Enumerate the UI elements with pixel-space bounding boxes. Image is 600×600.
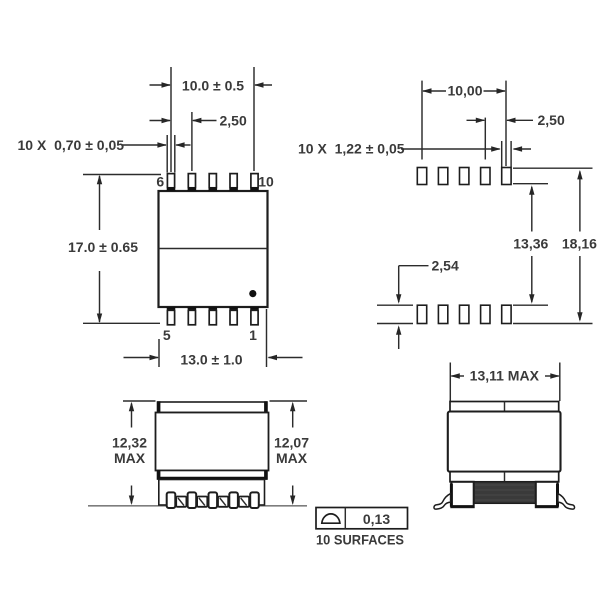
end view: left post thick edge	[451, 484, 474, 507]
dimension 10X 0,70 +/-0,05 right arrow	[175, 142, 190, 147]
land pad 2 (bottom row)	[481, 305, 490, 323]
svg-text:12,32: 12,32	[112, 435, 147, 451]
land pattern: extension line pad6 center	[421, 81, 423, 160]
svg-text:2,54: 2,54	[432, 257, 459, 273]
front-row lead 5 (front view)	[250, 492, 259, 508]
dimension label 17.0 +/-0.65	[68, 239, 138, 255]
extension line top pads upper edge	[513, 167, 593, 169]
svg-text:10,00: 10,00	[447, 83, 482, 99]
dimension 13.0 +/-1.0 left arrow	[124, 355, 160, 360]
svg-text:12,07: 12,07	[274, 435, 309, 451]
pin label 6	[156, 173, 164, 189]
land pad 5 (bottom row)	[417, 305, 426, 323]
extension line bottom pads lower edge (right)	[513, 323, 593, 325]
front view: top extension line right segment	[270, 400, 308, 402]
pin 9 lead (top row)	[229, 174, 238, 191]
dimension label 10 X 1,22 +/-0,05	[298, 141, 405, 157]
svg-text:0,13: 0,13	[363, 511, 390, 527]
land pad 9 (top row)	[481, 168, 490, 185]
dimension 2,50 pitch right arrow	[506, 118, 533, 123]
dimension label 18,16	[562, 235, 597, 251]
svg-text:MAX: MAX	[276, 450, 308, 466]
end view: top flange	[450, 402, 559, 412]
svg-text:2,50: 2,50	[538, 112, 565, 128]
front view: bobbin base	[159, 480, 265, 506]
top view: extension line pin10 center	[253, 67, 255, 171]
svg-text:10 SURFACES: 10 SURFACES	[316, 531, 404, 547]
dimension 10,00 right arrow	[484, 88, 507, 93]
end view: right bobbin post	[536, 482, 558, 507]
dimension 12,07 MAX down arrow	[290, 486, 295, 506]
dimension 2,50 pitch left arrow	[467, 118, 486, 123]
dimension 2,50 left arrow	[150, 118, 172, 123]
dimension label 2,50 (land pattern)	[538, 112, 565, 128]
dimension label 13,36	[513, 235, 548, 251]
dimension label 13,11 MAX	[470, 368, 540, 384]
top view: extension lines pin6 edges	[167, 135, 175, 173]
front view: top tape flange	[158, 401, 268, 413]
pin label 5	[163, 327, 171, 343]
svg-text:5: 5	[163, 327, 171, 343]
top view: extension line body top	[83, 174, 161, 176]
end view: left bobbin post	[451, 482, 473, 507]
svg-text:MAX: MAX	[114, 450, 146, 466]
front view: core body	[156, 413, 269, 471]
land pad 4 (bottom row)	[438, 305, 447, 323]
end view: right gull-wing lead	[558, 494, 575, 510]
back-row lead 7 (front view)	[176, 497, 186, 507]
pin label 10	[258, 173, 274, 189]
dimension 2,54 leader line	[399, 265, 429, 267]
dimension 18,16 upper arrow	[577, 170, 582, 232]
dimension 12,07 MAX up arrow	[290, 402, 295, 428]
svg-text:6: 6	[156, 173, 164, 189]
front-row lead 1 (front view)	[167, 492, 176, 508]
end view: right post thick edge	[536, 484, 558, 507]
dimension label 2,54	[432, 257, 459, 273]
end view: core body	[448, 412, 561, 472]
top view: extension line pin7 center	[191, 112, 193, 171]
dimension 12,32 MAX down arrow	[129, 486, 134, 506]
dimension 1,22 leader arrow	[401, 146, 501, 151]
pin label 1	[249, 327, 257, 343]
dimension 10.0 +/-0.5 left arrow	[150, 82, 172, 87]
dimension 13.0 +/-1.0 right arrow	[268, 355, 303, 360]
dimension 17.0 +/-0.65 upper arrow	[97, 175, 102, 230]
svg-text:2,50: 2,50	[220, 112, 247, 128]
seating plane line	[88, 505, 307, 507]
back-row lead 9 (front view)	[218, 497, 228, 507]
land pad 6 (top row)	[417, 168, 426, 185]
land pad 8 (top row)	[460, 168, 469, 185]
surface profile symbol	[322, 514, 340, 523]
dimension 13,11 MAX left arrow	[450, 373, 464, 378]
extension line top pads lower edge	[513, 183, 548, 185]
bottom width extension line left	[158, 339, 160, 367]
dimension 18,16 lower arrow	[577, 256, 582, 322]
svg-text:10 X 0,70 ± 0,05: 10 X 0,70 ± 0,05	[18, 137, 125, 153]
land pattern: extension line pad9 center	[484, 118, 486, 160]
dimension 1,22 right arrow	[513, 146, 531, 151]
dimension 10X 0,70 +/-0,05 leader arrow	[123, 142, 167, 147]
dimension 13,36 lower arrow	[529, 256, 534, 304]
pin 1 index dot	[249, 290, 256, 297]
dimension 13,11 MAX right arrow	[545, 373, 560, 378]
pin 10 lead (top row)	[250, 174, 259, 191]
svg-text:17.0 ± 0.65: 17.0 ± 0.65	[68, 239, 138, 255]
dimension label 2,50	[220, 112, 247, 128]
end view: extension line right	[559, 363, 561, 402]
pin 4 lead (bottom row)	[187, 307, 196, 325]
dimension 12,32 MAX up arrow	[129, 402, 134, 428]
land pattern: extension lines pad10 edges	[502, 141, 511, 167]
package body top view	[159, 191, 268, 307]
svg-text:10: 10	[258, 173, 274, 189]
front-row lead 2 (front view)	[188, 492, 197, 508]
dimension label 13.0 +/-1.0	[180, 351, 242, 367]
pin 2 lead (bottom row)	[229, 307, 238, 325]
dimension 17.0 +/-0.65 lower arrow	[97, 271, 102, 323]
svg-text:13.0 ± 1.0: 13.0 ± 1.0	[180, 351, 242, 367]
dimension label 10 X 0,70 +/-0,05	[18, 137, 125, 153]
front view: bottom flange	[157, 470, 267, 480]
dimension 2,54 down arrow	[396, 266, 401, 304]
dimension label 12,07 MAX	[274, 435, 309, 466]
dimension 13,36 upper arrow	[529, 185, 534, 231]
front-row lead 4 (front view)	[229, 492, 238, 508]
pin 6 lead (top row)	[166, 174, 175, 191]
svg-text:18,16: 18,16	[562, 235, 597, 251]
svg-text:1: 1	[249, 327, 257, 343]
back-row lead 10 (front view)	[239, 497, 249, 507]
dimension label 10,00	[447, 83, 482, 99]
pin 1 lead (bottom row)	[250, 307, 259, 325]
svg-text:10 X 1,22 ± 0,05: 10 X 1,22 ± 0,05	[298, 141, 405, 157]
svg-text:13,36: 13,36	[513, 235, 548, 251]
pin 8 lead (top row)	[208, 174, 217, 191]
top view: extension line body bottom	[83, 322, 160, 324]
land pad 3 (bottom row)	[460, 305, 469, 323]
front-row lead 3 (front view)	[209, 492, 218, 508]
end view: extension line left	[449, 363, 451, 402]
land pattern: extension line pad10 center	[505, 81, 507, 166]
pin 5 lead (bottom row)	[166, 307, 175, 325]
svg-text:13,11 MAX: 13,11 MAX	[470, 368, 540, 384]
land pad 7 (top row)	[438, 168, 447, 185]
dimension 10.0 +/-0.5 right arrow	[254, 82, 272, 87]
land pad 1 (bottom row)	[502, 305, 511, 323]
dimension 2,54 up arrow	[396, 325, 401, 349]
pin 3 lead (bottom row)	[208, 307, 217, 325]
top view: extension line pin6 center	[170, 67, 172, 172]
extension line bottom pads lower edge (left)	[377, 323, 413, 325]
extension line bottom pads upper edge (left)	[377, 304, 413, 306]
dimension 2,50 right arrow	[192, 118, 217, 123]
package body parting line	[159, 248, 268, 250]
dimension label 12,32 MAX	[112, 435, 147, 466]
dimension 10,00 left arrow	[422, 88, 446, 93]
end view: left gull-wing lead	[434, 494, 451, 510]
extension line bottom pads upper edge (right)	[513, 304, 548, 306]
land pad 10 (top row)	[502, 168, 511, 185]
svg-text:10.0 ± 0.5: 10.0 ± 0.5	[182, 77, 244, 93]
pin 7 lead (top row)	[187, 174, 196, 191]
flatness feature control frame	[316, 508, 408, 529]
bottom width extension line right	[266, 309, 268, 367]
end view: bottom flange	[450, 472, 559, 482]
dimension label 10.0 +/-0.5	[182, 77, 244, 93]
end view: winding (dark block)	[474, 482, 536, 504]
note 10 SURFACES	[316, 531, 404, 547]
front view: top extension line left segment	[123, 400, 156, 402]
tolerance value 0,13	[363, 511, 390, 527]
back-row lead 8 (front view)	[197, 497, 207, 507]
